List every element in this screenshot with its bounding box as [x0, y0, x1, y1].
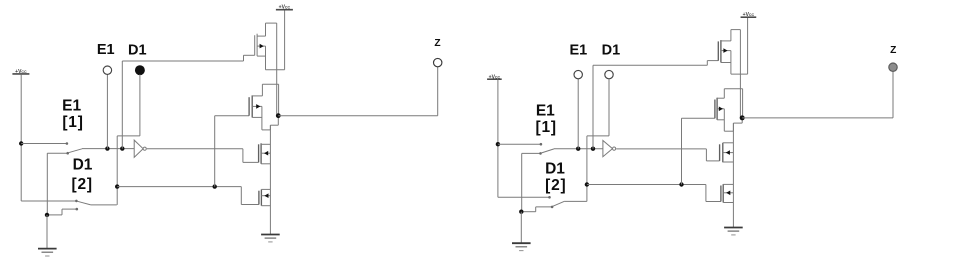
- svg-text:[2]: [2]: [72, 176, 93, 193]
- svg-text:E1: E1: [570, 42, 588, 58]
- svg-text:Z: Z: [434, 38, 440, 49]
- svg-text:E1: E1: [62, 98, 81, 115]
- svg-text:[2]: [2]: [545, 177, 566, 194]
- svg-text:E1: E1: [97, 42, 115, 58]
- svg-text:[1]: [1]: [62, 114, 83, 131]
- svg-text:[1]: [1]: [536, 119, 557, 136]
- svg-text:E1: E1: [536, 102, 555, 119]
- svg-text:Z: Z: [890, 45, 896, 56]
- svg-text:D1: D1: [602, 42, 621, 58]
- svg-text:D1: D1: [73, 157, 93, 174]
- svg-text:D1: D1: [545, 161, 565, 178]
- svg-text:D1: D1: [128, 43, 147, 59]
